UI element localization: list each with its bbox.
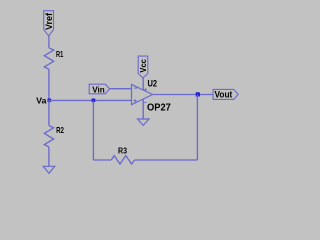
wire feedback tap down to R3	[92, 100, 94, 160]
svg-text:Vout: Vout	[215, 89, 233, 100]
svg-text:R1: R1	[56, 49, 63, 59]
wire R3 to output branch	[135, 159, 198, 161]
net flag Vout	[213, 89, 238, 100]
net flag Vref	[44, 11, 54, 36]
supply + mark	[144, 89, 147, 91]
wire output down to feedback	[196, 95, 198, 161]
supply - mark	[144, 101, 147, 103]
wire R1 to node Va	[48, 69, 50, 100]
resistor R1	[44, 48, 63, 69]
ground arrow left	[43, 166, 55, 173]
resistor R2	[44, 125, 64, 147]
svg-text:R2: R2	[56, 125, 64, 135]
net flag Vin	[89, 84, 110, 94]
svg-text:R3: R3	[118, 145, 127, 155]
+ input mark	[134, 100, 137, 102]
svg-text:Vin: Vin	[92, 85, 105, 94]
node Va (junction)	[36, 95, 51, 105]
wire Vin to op-amp - input	[110, 88, 132, 90]
wire V- pin to ground	[142, 99, 144, 119]
svg-text:U2: U2	[148, 79, 158, 89]
svg-text:OP27: OP27	[147, 101, 171, 113]
junction output	[196, 92, 200, 96]
svg-text:Vref: Vref	[44, 13, 54, 30]
op-amp U2 (OP27)	[132, 79, 171, 114]
wire Vref to R1	[48, 36, 50, 48]
svg-text:Va: Va	[36, 95, 47, 105]
wire bottom left segment	[93, 159, 111, 161]
junction feedback tap	[92, 99, 96, 103]
wire Va to op-amp + input	[49, 99, 132, 101]
resistor R3	[111, 145, 134, 164]
net flag Vcc	[138, 56, 148, 78]
wire Vcc pin	[142, 78, 144, 90]
ground arrow op-amp V-	[138, 119, 150, 125]
- input mark	[134, 87, 137, 89]
wire Va to R2	[48, 100, 50, 125]
wire R2 to ground	[48, 147, 50, 166]
wire op-amp output to Vout	[153, 94, 214, 96]
svg-text:Vcc: Vcc	[138, 59, 148, 73]
